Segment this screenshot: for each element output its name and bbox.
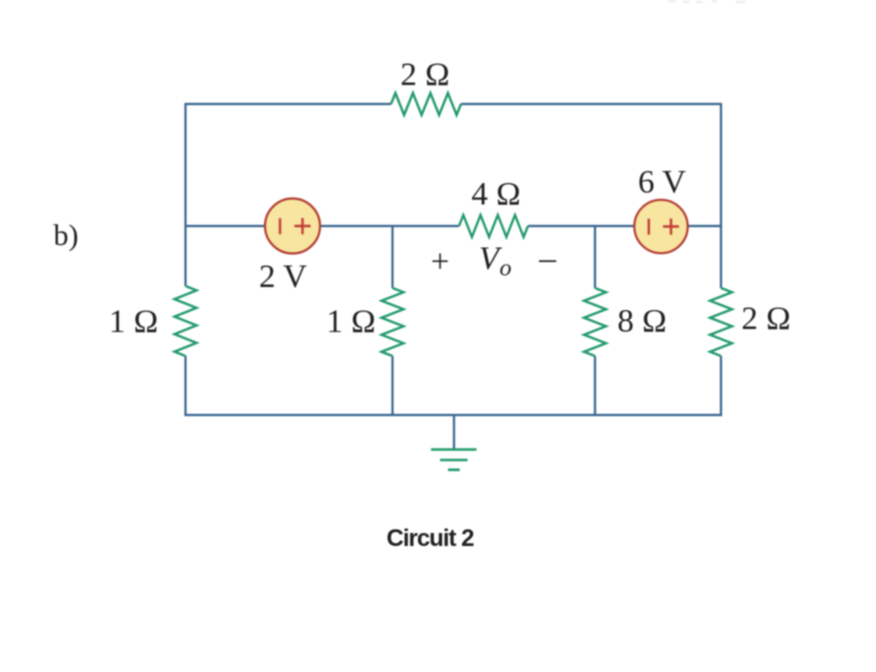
resistor 1ohm left	[175, 286, 197, 356]
svg-text:8 Ω: 8 Ω	[617, 304, 666, 340]
wire right vertical	[720, 103, 722, 416]
voltage source 2V	[265, 199, 320, 254]
svg-text:2 V: 2 V	[259, 259, 307, 295]
svg-text:+: +	[431, 244, 450, 280]
svg-text:o: o	[500, 256, 512, 282]
ground	[431, 415, 477, 470]
top edge artifact	[668, 1, 745, 2]
wire middle rail	[186, 225, 722, 227]
resistor 1ohm middle	[382, 288, 404, 356]
resistor 8ohm	[584, 288, 606, 356]
label Vo polarity	[431, 241, 558, 283]
wire branch node C vertical	[594, 226, 596, 415]
resistor 4ohm	[459, 215, 528, 237]
wire left vertical	[184, 103, 186, 416]
svg-text:4 Ω: 4 Ω	[471, 177, 520, 213]
voltage source 6V	[634, 200, 687, 253]
resistor 2ohm top	[391, 93, 461, 115]
wire branch node B vertical	[391, 226, 393, 415]
wire top rail	[186, 103, 722, 105]
svg-text:b): b)	[54, 219, 79, 252]
svg-text:6 V: 6 V	[638, 165, 686, 201]
svg-text:2 Ω: 2 Ω	[400, 57, 449, 93]
svg-text:Circuit 2: Circuit 2	[386, 525, 474, 552]
wire bottom rail	[184, 414, 722, 416]
svg-text:−: −	[537, 242, 558, 283]
svg-text:1 Ω: 1 Ω	[326, 304, 375, 340]
svg-text:1 Ω: 1 Ω	[109, 304, 158, 340]
resistor 2ohm right	[710, 288, 732, 356]
svg-text:2 Ω: 2 Ω	[741, 301, 790, 337]
